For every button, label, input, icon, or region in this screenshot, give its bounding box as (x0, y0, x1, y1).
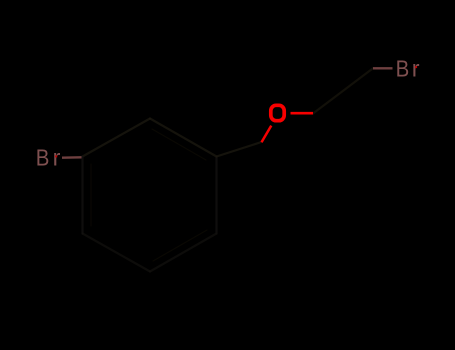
bond O-CH2 (red) (291, 112, 314, 115)
wire ring edge UR-LR (215, 157, 217, 234)
atom label Br left (36, 144, 61, 171)
wire aromatic inner line LL-UL (90, 164, 92, 226)
wire aromatic inner line T-UR (152, 129, 206, 160)
red tick on left r (55, 155, 57, 157)
atom label Br top right (396, 55, 420, 82)
atom label O (271, 105, 284, 120)
wire C1-C2 bond (313, 68, 373, 113)
wire ring edge B-LL (83, 234, 151, 272)
bond C-Br left (brick) (62, 156, 82, 159)
svg-text:r: r (412, 55, 420, 81)
benzene ring (83, 68, 374, 271)
red tick on right r (415, 66, 417, 68)
wire ring edge UL-T (83, 119, 151, 157)
svg-text:B: B (396, 55, 410, 82)
svg-text:B: B (36, 144, 50, 171)
wire aromatic inner line LR-B (153, 230, 207, 261)
svg-text:r: r (53, 145, 61, 171)
wire ring edge T-UR (150, 119, 217, 157)
wire benzylic bond UR to CH2 (217, 142, 262, 157)
wire ring edge LR-B (150, 234, 217, 272)
bond C-Br top right (brick) (373, 67, 393, 69)
bond CH2-O (red) (262, 126, 272, 143)
wire ring edge LL-UL (81, 157, 83, 234)
